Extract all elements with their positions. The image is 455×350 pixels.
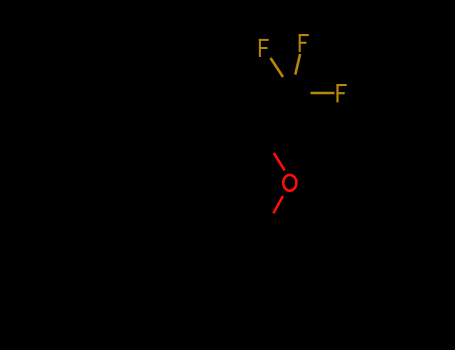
wire C2-O carbon half (near-invisible)	[262, 135, 274, 154]
wire Ct-F2 carbon half (near-invisible)	[289, 75, 295, 95]
wire Ct-C2 carbon half (near-invisible)	[262, 95, 289, 135]
atom label F2	[299, 34, 309, 52]
wire Ct-F3 carbon half (near-invisible)	[289, 93, 311, 95]
atom label O	[283, 175, 296, 191]
atom label F3	[336, 84, 346, 102]
bond C-F1 fluorine half	[271, 58, 284, 77]
bond C-F2 fluorine half	[295, 54, 300, 75]
bond O-C3 oxygen half	[273, 196, 283, 213]
bond C-F3 fluorine half	[311, 92, 335, 95]
wire Ct-F1 carbon half (near-invisible)	[283, 77, 289, 95]
atom label F1	[259, 39, 269, 57]
bond C2-O oxygen half	[274, 153, 285, 170]
wire O-C3 carbon half (near-invisible)	[264, 213, 273, 230]
